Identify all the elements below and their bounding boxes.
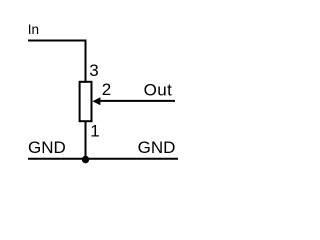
svg-text:1: 1: [90, 121, 99, 140]
svg-text:GND: GND: [138, 138, 176, 157]
wire pin 1 to ground rail: [85, 121, 87, 159]
junction dot: [82, 156, 89, 163]
svg-text:Out: Out: [144, 81, 173, 100]
svg-text:GND: GND: [28, 138, 66, 157]
svg-text:3: 3: [89, 61, 98, 80]
wire In to pin 3: [28, 41, 86, 83]
svg-text:In: In: [28, 22, 39, 37]
wiper arrowhead: [92, 97, 100, 105]
wire Out to wiper: [96, 100, 175, 102]
ground rail wire: [28, 158, 178, 160]
svg-text:2: 2: [102, 80, 111, 99]
potentiometer body: [80, 82, 92, 121]
